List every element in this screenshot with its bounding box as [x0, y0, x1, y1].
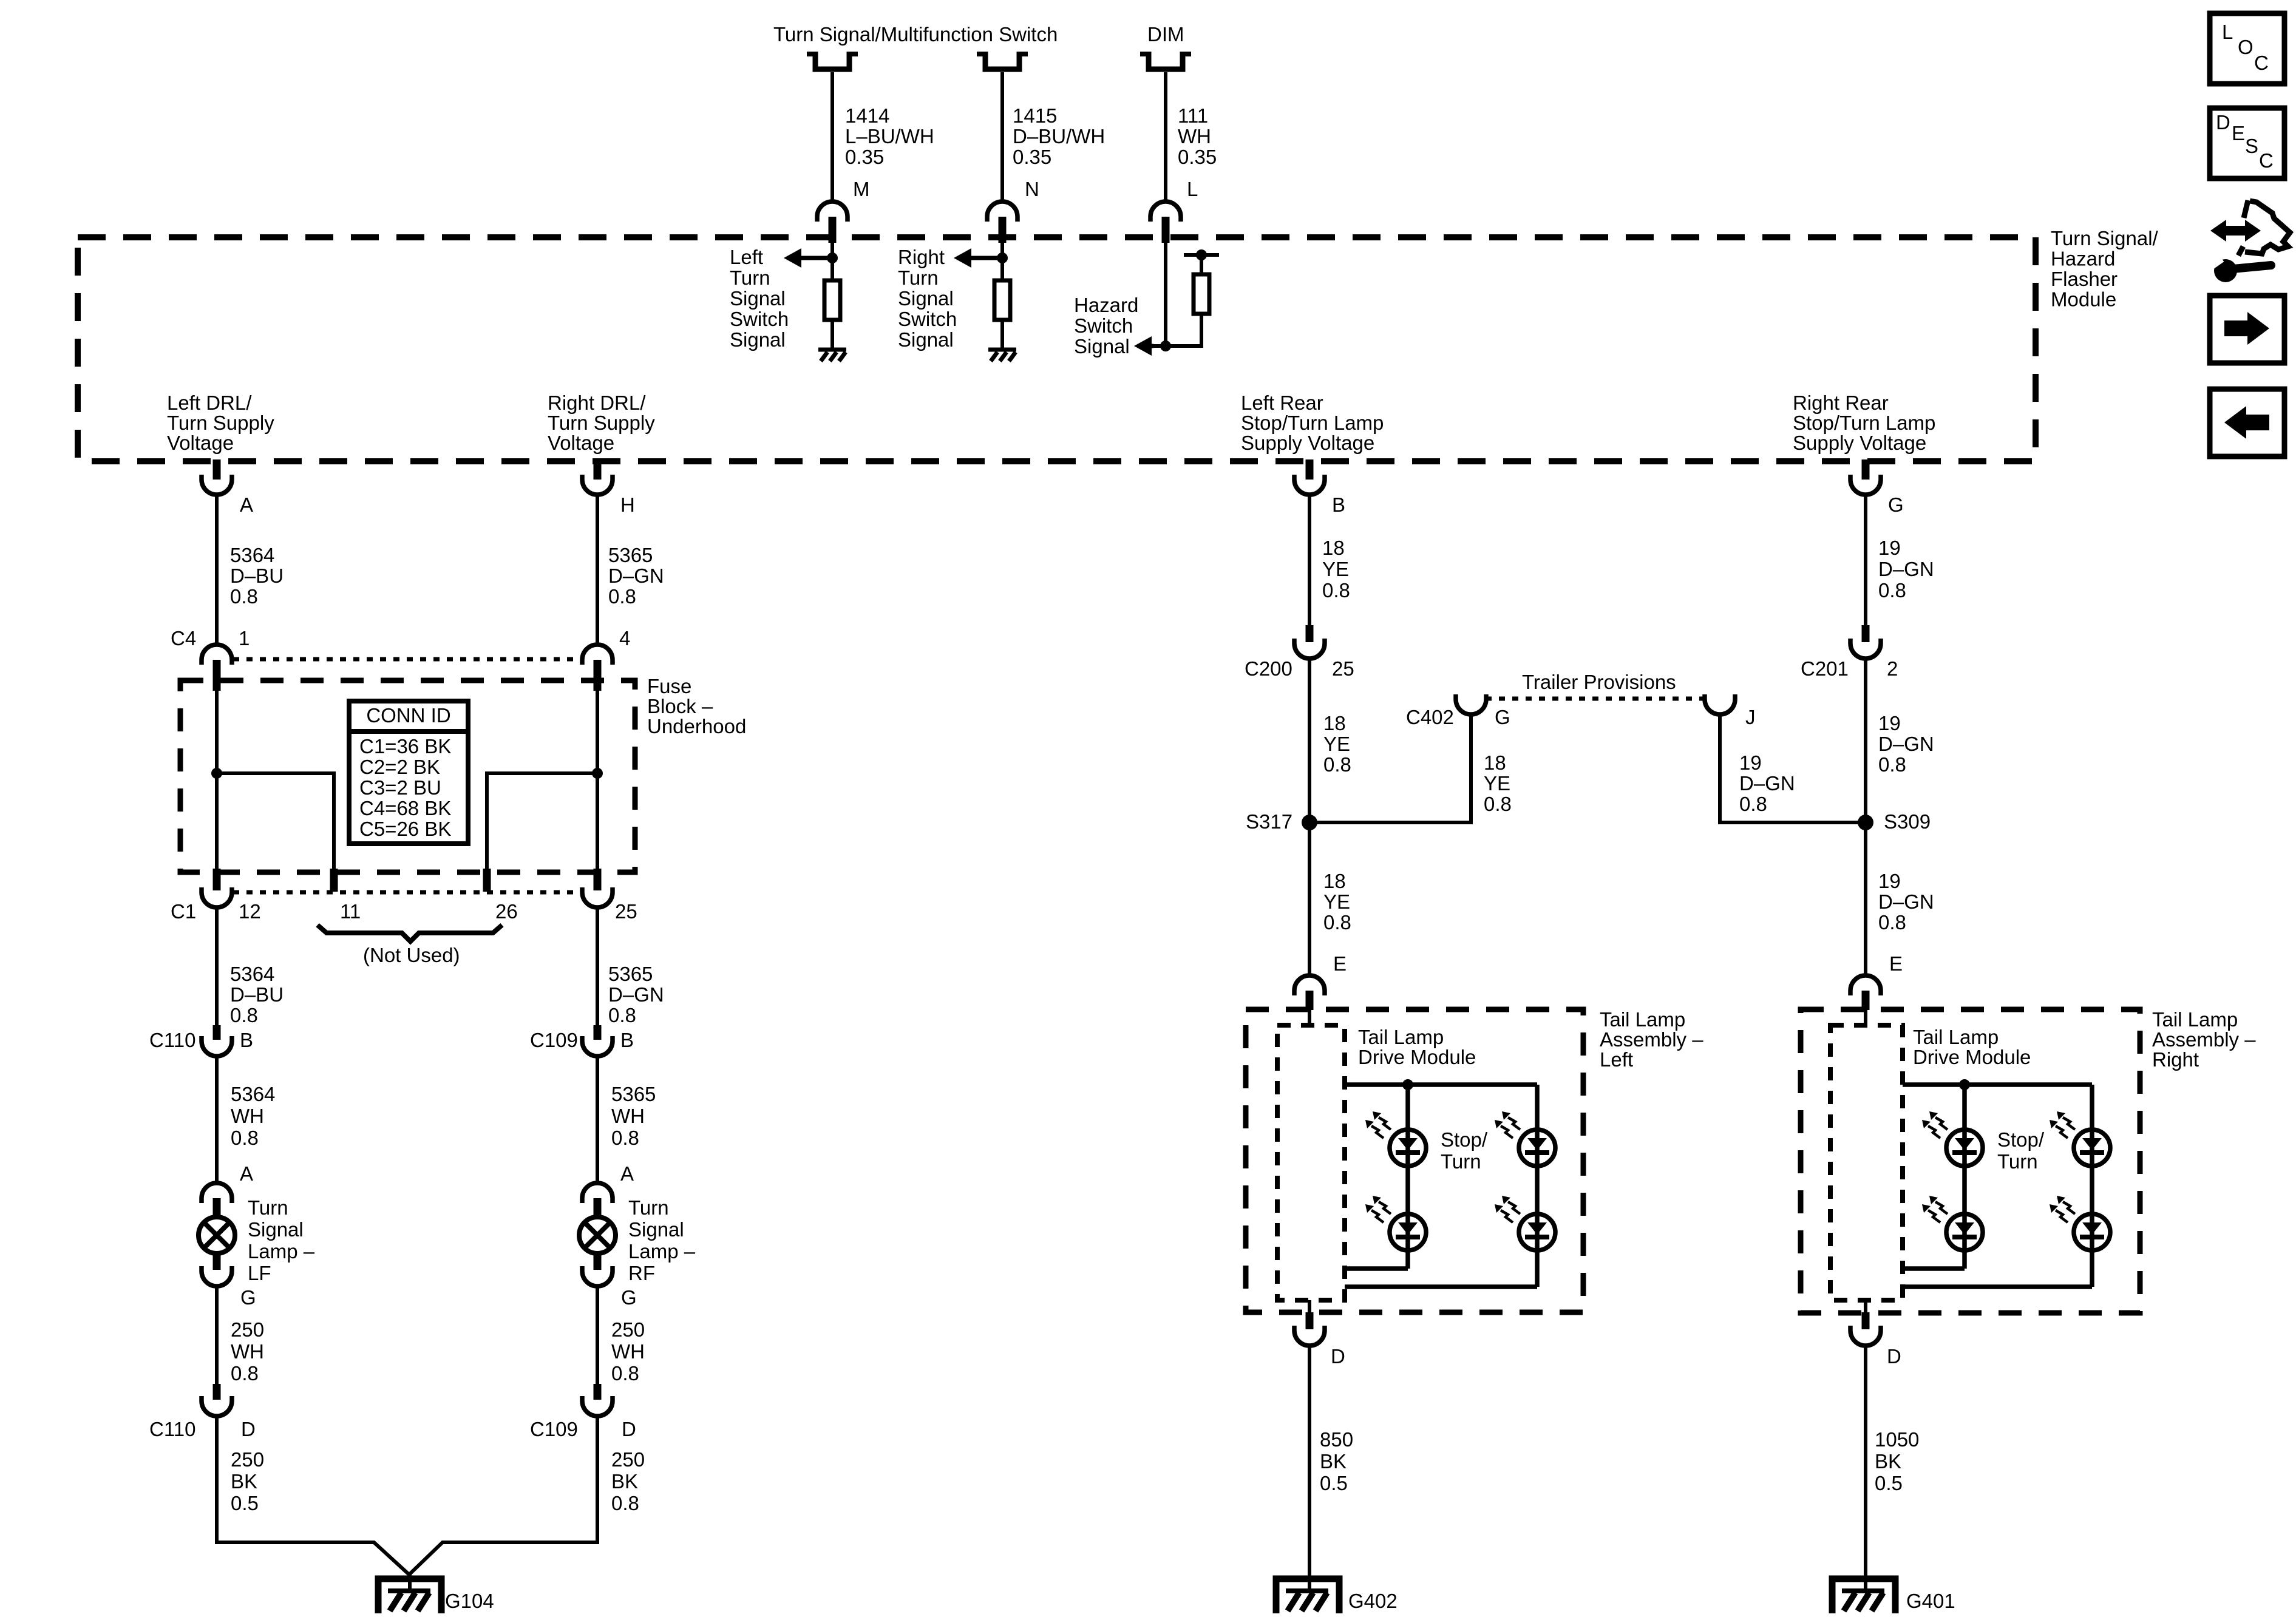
- svg-text:D–GN: D–GN: [608, 564, 664, 587]
- LED string 2 wire left: [1535, 1085, 1540, 1287]
- svg-text:B: B: [1332, 493, 1345, 516]
- svg-text:5365: 5365: [611, 1083, 656, 1105]
- wire C110 to lamp: [215, 1056, 219, 1184]
- svg-text:1415: 1415: [1013, 104, 1057, 127]
- module box Turn Signal/Hazard Flasher Module: [78, 237, 2036, 461]
- svg-text:G104: G104: [445, 1590, 494, 1612]
- svg-text:C200: C200: [1245, 657, 1292, 680]
- pin E lead-in (right): [1864, 1010, 1867, 1026]
- svg-text:25: 25: [615, 900, 637, 923]
- svg-text:YE: YE: [1323, 890, 1350, 913]
- wire D to G402: [1308, 1345, 1311, 1591]
- svg-text:0.8: 0.8: [231, 1362, 259, 1385]
- svg-text:C110: C110: [149, 1418, 195, 1440]
- node S317: [1302, 815, 1317, 830]
- wire hazard horizontal: [1151, 344, 1203, 348]
- wire C110 D to ground run: [217, 1415, 410, 1576]
- svg-text:Hazard: Hazard: [1074, 294, 1138, 316]
- svg-text:Block –: Block –: [647, 695, 713, 717]
- connector C1 pin 25 cup: [582, 887, 613, 907]
- icon arrow-right box: [2210, 296, 2284, 363]
- connector C109 D cup: [582, 1396, 613, 1416]
- pin L dome: [1150, 202, 1181, 222]
- svg-text:Tail Lamp: Tail Lamp: [1600, 1008, 1685, 1031]
- CONN ID table box: [349, 701, 468, 844]
- svg-text:D: D: [622, 1418, 636, 1440]
- ground chassis right: [988, 348, 1016, 352]
- svg-text:Tail Lamp: Tail Lamp: [1913, 1026, 1999, 1048]
- pin A cup: [202, 475, 232, 495]
- svg-text:Signal: Signal: [628, 1218, 684, 1241]
- drive module bus wire right: [1903, 1082, 2092, 1087]
- pin A stub: [213, 459, 221, 480]
- svg-text:Left: Left: [730, 246, 763, 268]
- tail lamp assembly left box: [1246, 1009, 1583, 1312]
- icon DESC box: [2210, 108, 2284, 178]
- ground G401: [1832, 1579, 1895, 1613]
- svg-text:0.8: 0.8: [1878, 579, 1906, 602]
- wire fuse left branch to pin 11: [217, 773, 334, 870]
- svg-text:2: 2: [1887, 657, 1898, 680]
- connector bracket L (switch): [1140, 52, 1191, 56]
- svg-text:Drive Module: Drive Module: [1913, 1046, 2031, 1068]
- svg-text:CONN ID: CONN ID: [366, 704, 450, 727]
- svg-text:Voltage: Voltage: [167, 432, 234, 454]
- wire S309 to E (right): [1864, 822, 1867, 976]
- svg-text:(Not Used): (Not Used): [363, 944, 460, 966]
- svg-text:C: C: [2259, 149, 2274, 172]
- svg-text:E: E: [1889, 952, 1903, 975]
- svg-text:C4=68 BK: C4=68 BK: [359, 797, 451, 819]
- wire C402 J to S309: [1720, 713, 1866, 822]
- lamp pin G cup: [582, 1266, 613, 1286]
- svg-text:Turn: Turn: [730, 266, 770, 289]
- svg-text:Supply Voltage: Supply Voltage: [1241, 432, 1374, 454]
- wire pin N to junction: [1000, 243, 1004, 280]
- string 2 return wire right: [1903, 1284, 2092, 1289]
- wire C109 to lamp: [596, 1056, 599, 1184]
- svg-text:26: 26: [495, 900, 518, 923]
- svg-text:Signal: Signal: [248, 1218, 304, 1241]
- svg-text:M: M: [853, 178, 870, 200]
- svg-text:D: D: [2216, 111, 2230, 134]
- svg-text:Stop/Turn Lamp: Stop/Turn Lamp: [1793, 412, 1935, 434]
- svg-text:Hazard: Hazard: [2051, 248, 2115, 270]
- svg-text:C110: C110: [149, 1029, 195, 1051]
- lamp pin A dome: [582, 1183, 613, 1203]
- svg-text:J: J: [1745, 706, 1756, 728]
- wire lamp to C110 D: [215, 1286, 219, 1385]
- connector C110 D stub: [213, 1384, 221, 1400]
- pin B cup: [1294, 475, 1325, 495]
- wire pin B to C200: [1308, 495, 1311, 626]
- pin M stub: [829, 217, 837, 243]
- connector C4 pin 4 stub: [594, 660, 602, 691]
- resistor hazard: [1194, 274, 1209, 314]
- connector C1 pin 25 stub: [594, 869, 602, 890]
- svg-text:C109: C109: [530, 1029, 578, 1051]
- wire fuse right vertical: [596, 691, 599, 870]
- svg-text:C5=26 BK: C5=26 BK: [359, 818, 451, 840]
- svg-text:WH: WH: [1178, 125, 1211, 147]
- wire C1 to C110: [215, 907, 219, 1026]
- svg-text:5365: 5365: [608, 544, 653, 566]
- svg-text:Turn: Turn: [628, 1196, 669, 1219]
- resistor right turn: [994, 280, 1010, 320]
- svg-text:L: L: [2222, 21, 2233, 43]
- connector C402 pin G cup: [1456, 694, 1486, 714]
- connector C201 stub: [1862, 625, 1870, 642]
- svg-text:1414: 1414: [845, 104, 889, 127]
- svg-text:0.5: 0.5: [1320, 1472, 1348, 1494]
- svg-text:A: A: [240, 1162, 253, 1185]
- svg-text:250: 250: [611, 1318, 645, 1341]
- pin M dome: [817, 202, 847, 222]
- pin E lead-in (left): [1308, 1010, 1311, 1026]
- svg-text:0.8: 0.8: [611, 1492, 639, 1514]
- connector C1 pin 12 cup: [202, 887, 232, 907]
- svg-text:BK: BK: [231, 1470, 257, 1493]
- svg-text:G: G: [1888, 493, 1904, 516]
- LED 3 left: [1519, 1130, 1555, 1166]
- pin G stub: [1862, 459, 1870, 480]
- svg-text:0.8: 0.8: [1322, 579, 1350, 602]
- svg-text:12: 12: [239, 900, 261, 923]
- svg-text:Signal: Signal: [730, 328, 786, 351]
- svg-text:C2=2 BK: C2=2 BK: [359, 756, 440, 778]
- svg-text:0.8: 0.8: [1484, 793, 1512, 815]
- svg-text:0.8: 0.8: [230, 585, 258, 608]
- wire switch to pin M: [830, 72, 834, 202]
- svg-text:G: G: [1495, 706, 1510, 728]
- wire S317 to E (left): [1308, 822, 1311, 976]
- connector C109 D stub: [594, 1384, 602, 1400]
- svg-text:E: E: [2232, 122, 2245, 144]
- node fuse left junction: [211, 768, 222, 779]
- pin D lead-out right: [1864, 1300, 1867, 1314]
- svg-text:D: D: [241, 1418, 256, 1440]
- svg-text:Turn: Turn: [1997, 1150, 2038, 1173]
- connector C4 pin 4 dome: [582, 645, 613, 665]
- svg-text:D: D: [1331, 1345, 1345, 1368]
- tail lamp assembly right box: [1801, 1009, 2140, 1313]
- svg-text:Signal: Signal: [1074, 335, 1130, 358]
- node S309: [1858, 815, 1873, 830]
- LED 2 right: [1946, 1214, 1983, 1250]
- pin 26 stub: [483, 869, 491, 892]
- svg-text:RF: RF: [628, 1262, 655, 1284]
- node hazard junction: [1160, 341, 1171, 351]
- lamp pin G cup: [202, 1266, 232, 1286]
- svg-text:Switch: Switch: [730, 308, 789, 330]
- connector C4 pin 1 stub: [213, 660, 221, 691]
- wire S317 branch to C402: [1309, 713, 1471, 822]
- svg-text:D: D: [1887, 1345, 1901, 1368]
- connector C200 stub: [1306, 625, 1314, 642]
- svg-text:WH: WH: [611, 1340, 645, 1363]
- fuse block box: [180, 680, 635, 872]
- wire resistor to ground (right): [1000, 320, 1004, 350]
- LED 2 left: [1390, 1214, 1426, 1250]
- svg-text:18: 18: [1322, 537, 1345, 559]
- svg-text:D–BU/WH: D–BU/WH: [1013, 125, 1105, 147]
- wire fuse right branch to pin 26: [487, 773, 597, 870]
- svg-text:G: G: [240, 1286, 256, 1309]
- tail lamp drive module right box: [1830, 1025, 1903, 1300]
- LED 3 right: [2074, 1130, 2110, 1166]
- svg-text:C4: C4: [171, 627, 196, 649]
- svg-text:C1: C1: [171, 900, 196, 923]
- svg-text:A: A: [620, 1162, 634, 1185]
- svg-text:11: 11: [340, 900, 361, 923]
- wire resistor to ground (left): [830, 320, 834, 350]
- svg-text:S317: S317: [1246, 810, 1292, 833]
- svg-text:S309: S309: [1884, 810, 1931, 833]
- svg-text:Assembly –: Assembly –: [2152, 1028, 2256, 1051]
- pin D cup left: [1294, 1326, 1325, 1346]
- connector line C4 (dotted): [233, 657, 581, 662]
- svg-text:Turn: Turn: [248, 1196, 288, 1219]
- svg-text:111: 111: [1178, 104, 1208, 127]
- svg-text:H: H: [620, 493, 635, 516]
- arrow Hazard Switch Signal: [1149, 344, 1153, 348]
- svg-text:Left: Left: [1600, 1048, 1633, 1071]
- wire DIM to pin L: [1164, 72, 1167, 202]
- pin N stub: [999, 217, 1007, 243]
- pin D stub right: [1862, 1312, 1870, 1329]
- connector C4 pin 1 dome: [202, 645, 232, 665]
- svg-text:E: E: [1333, 952, 1347, 975]
- wire lamp to C109 D: [596, 1286, 599, 1385]
- wire pin H to C4: [596, 495, 599, 645]
- connector C402 pin J cup: [1705, 694, 1735, 714]
- pin 11 stub: [330, 869, 338, 892]
- svg-text:WH: WH: [231, 1340, 264, 1363]
- svg-text:Turn Supply: Turn Supply: [167, 412, 274, 434]
- icon arrow-left box: [2210, 389, 2284, 456]
- svg-text:BK: BK: [1875, 1450, 1901, 1473]
- svg-text:Right: Right: [898, 246, 945, 268]
- lamp pin A stub: [594, 1198, 602, 1216]
- pin L stub: [1162, 217, 1170, 243]
- svg-text:0.35: 0.35: [1178, 146, 1217, 168]
- svg-text:C201: C201: [1801, 657, 1849, 680]
- connector C1 pin 12 stub: [213, 869, 221, 890]
- svg-text:Switch: Switch: [898, 308, 957, 330]
- svg-text:Turn Signal/: Turn Signal/: [2051, 227, 2159, 249]
- svg-text:1050: 1050: [1875, 1428, 1919, 1451]
- brace Not Used: [318, 925, 502, 941]
- ground chassis left: [818, 348, 846, 352]
- svg-text:Module: Module: [2051, 288, 2116, 311]
- svg-text:5364: 5364: [231, 1083, 275, 1105]
- pin E stub (right): [1862, 991, 1870, 1010]
- wire resistor to hazard line: [1200, 314, 1203, 348]
- svg-text:Right DRL/: Right DRL/: [548, 392, 646, 414]
- svg-text:Signal: Signal: [730, 287, 786, 310]
- icon wrench/part: [2210, 220, 2261, 242]
- svg-text:WH: WH: [611, 1105, 645, 1127]
- CONN ID header line: [349, 729, 468, 734]
- connector C110 B stub: [213, 1025, 221, 1040]
- pin D stub left: [1306, 1312, 1314, 1329]
- svg-text:0.8: 0.8: [1878, 911, 1906, 934]
- svg-text:Right: Right: [2152, 1048, 2199, 1071]
- connector bracket N (switch): [977, 52, 1028, 56]
- svg-text:5364: 5364: [230, 963, 274, 985]
- ground G402: [1276, 1579, 1339, 1613]
- svg-text:19: 19: [1878, 712, 1901, 734]
- svg-text:Signal: Signal: [898, 328, 954, 351]
- svg-text:Supply Voltage: Supply Voltage: [1793, 432, 1926, 454]
- wire fuse left vertical: [215, 691, 219, 870]
- connector C109 B cup: [582, 1036, 613, 1056]
- ground G104: [378, 1579, 441, 1613]
- svg-text:WH: WH: [231, 1105, 264, 1127]
- svg-text:Stop/: Stop/: [1441, 1128, 1488, 1151]
- svg-text:19: 19: [1878, 870, 1901, 892]
- connector C201 cup: [1850, 639, 1881, 659]
- svg-text:S: S: [2245, 135, 2258, 157]
- wire C200 to S317: [1308, 659, 1311, 822]
- svg-text:0.8: 0.8: [611, 1127, 639, 1149]
- connector line C1 (dotted): [233, 890, 581, 895]
- node junction M: [827, 253, 838, 263]
- svg-text:0.8: 0.8: [608, 1004, 636, 1026]
- svg-text:G402: G402: [1348, 1590, 1398, 1612]
- pin H cup: [582, 475, 613, 495]
- lamp pin A stub: [213, 1198, 221, 1216]
- svg-text:0.8: 0.8: [1323, 753, 1351, 776]
- svg-text:0.35: 0.35: [1013, 146, 1051, 168]
- svg-text:5365: 5365: [608, 963, 653, 985]
- svg-text:Stop/Turn Lamp: Stop/Turn Lamp: [1241, 412, 1384, 434]
- svg-text:0.8: 0.8: [231, 1127, 259, 1149]
- svg-text:Underhood: Underhood: [647, 715, 746, 737]
- icon LOC box: [2210, 13, 2284, 84]
- wire pin G to C201: [1864, 495, 1867, 626]
- arrow Right Turn Signal Switch Signal: [969, 256, 1002, 260]
- svg-text:Fuse: Fuse: [647, 675, 691, 697]
- connector bracket M (switch): [807, 52, 858, 56]
- svg-text:Turn: Turn: [1441, 1150, 1481, 1173]
- tail lamp drive module left box: [1277, 1025, 1345, 1300]
- svg-text:0.8: 0.8: [230, 1004, 258, 1026]
- svg-text:Switch: Switch: [1074, 314, 1133, 337]
- svg-text:0.35: 0.35: [845, 146, 884, 168]
- LED string 1 wire left: [1405, 1085, 1410, 1269]
- svg-text:0.8: 0.8: [611, 1362, 639, 1385]
- svg-text:0.8: 0.8: [608, 585, 636, 608]
- svg-text:Right Rear: Right Rear: [1793, 392, 1889, 414]
- node hazard stub: [1196, 249, 1207, 260]
- string 1 return wire right: [1903, 1266, 1965, 1271]
- wire switch to pin N: [1000, 72, 1004, 202]
- svg-text:C3=2 BU: C3=2 BU: [359, 776, 441, 799]
- svg-text:18: 18: [1484, 751, 1506, 774]
- wire C1 to C109: [596, 907, 599, 1026]
- svg-text:O: O: [2238, 36, 2254, 58]
- svg-text:Lamp –: Lamp –: [248, 1240, 315, 1263]
- svg-text:5364: 5364: [230, 544, 274, 566]
- node junction N: [997, 253, 1008, 263]
- wire ground drop G104: [408, 1574, 412, 1591]
- LED 4 right: [2074, 1214, 2110, 1250]
- svg-text:Voltage: Voltage: [548, 432, 614, 454]
- svg-text:D–BU: D–BU: [230, 564, 284, 587]
- svg-text:D–GN: D–GN: [1878, 733, 1934, 755]
- svg-text:L: L: [1187, 178, 1198, 200]
- svg-text:0.5: 0.5: [231, 1492, 259, 1514]
- svg-text:18: 18: [1323, 870, 1346, 892]
- svg-text:C: C: [2254, 52, 2269, 74]
- svg-text:Tail Lamp: Tail Lamp: [1358, 1026, 1444, 1048]
- LED string 2 wire right: [2090, 1085, 2094, 1287]
- resistor left turn: [824, 280, 840, 320]
- wire D to G401: [1864, 1345, 1867, 1591]
- wire pin A to C4: [215, 495, 219, 645]
- svg-text:850: 850: [1320, 1428, 1353, 1451]
- wire pin L down: [1164, 243, 1167, 346]
- svg-text:L–BU/WH: L–BU/WH: [845, 125, 934, 147]
- pin D lead-out left: [1308, 1300, 1311, 1314]
- svg-text:18: 18: [1323, 712, 1346, 734]
- svg-text:Assembly –: Assembly –: [1600, 1028, 1703, 1051]
- svg-text:C402: C402: [1406, 706, 1454, 728]
- wire C201 to S309: [1864, 659, 1867, 822]
- svg-text:DIM: DIM: [1147, 23, 1184, 46]
- svg-text:G: G: [621, 1286, 637, 1309]
- svg-text:G401: G401: [1906, 1590, 1955, 1612]
- svg-text:Drive Module: Drive Module: [1358, 1046, 1476, 1068]
- svg-text:19: 19: [1878, 537, 1901, 559]
- svg-text:25: 25: [1332, 657, 1354, 680]
- svg-text:0.8: 0.8: [1739, 793, 1767, 815]
- svg-text:A: A: [240, 493, 253, 516]
- LED 1 left: [1390, 1130, 1426, 1166]
- svg-text:4: 4: [619, 627, 630, 649]
- svg-text:250: 250: [231, 1448, 264, 1471]
- svg-text:Left DRL/: Left DRL/: [167, 392, 252, 414]
- svg-text:Turn Supply: Turn Supply: [548, 412, 655, 434]
- string 1 return wire left: [1345, 1266, 1408, 1271]
- svg-text:YE: YE: [1323, 733, 1350, 755]
- svg-text:D–GN: D–GN: [1878, 890, 1934, 913]
- svg-text:YE: YE: [1322, 558, 1349, 580]
- svg-text:C109: C109: [530, 1418, 578, 1440]
- connector C200 cup: [1294, 639, 1325, 659]
- svg-text:B: B: [620, 1029, 634, 1051]
- svg-text:YE: YE: [1484, 772, 1510, 795]
- lamp pin A dome: [202, 1183, 232, 1203]
- wire stub to resistor: [1200, 255, 1203, 274]
- trailer provisions dotted line: [1486, 697, 1707, 701]
- svg-text:250: 250: [231, 1318, 264, 1341]
- svg-text:0.5: 0.5: [1875, 1472, 1903, 1494]
- lamp pin G stub: [213, 1254, 221, 1270]
- LED string 1 wire right: [1962, 1085, 1967, 1269]
- svg-text:D–GN: D–GN: [1739, 772, 1795, 795]
- svg-text:D–GN: D–GN: [608, 983, 664, 1006]
- connector C110 B cup: [202, 1036, 232, 1056]
- svg-text:Turn Signal/Multifunction Swit: Turn Signal/Multifunction Switch: [773, 23, 1058, 46]
- svg-text:Trailer Provisions: Trailer Provisions: [1522, 671, 1676, 693]
- svg-text:LF: LF: [248, 1262, 271, 1284]
- node bus junction left: [1402, 1079, 1413, 1090]
- connector C110 D cup: [202, 1396, 232, 1416]
- svg-text:0.8: 0.8: [1323, 911, 1351, 934]
- svg-text:Stop/: Stop/: [1997, 1128, 2045, 1151]
